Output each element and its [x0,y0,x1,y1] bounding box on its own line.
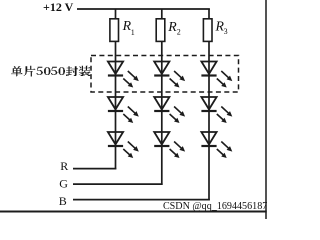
wire: column 3 vertical (B channel) [208,9,210,200]
wire: G output [73,183,163,185]
resistor R3 [203,19,212,42]
wire: R output [73,168,116,170]
label: 单片5050封装 (traced) [11,66,91,77]
wire: column 2 vertical (G channel) [161,9,163,185]
border bottom [0,211,267,213]
LED D4 [108,97,139,123]
resistor R1 [110,19,119,42]
svg-text:CSDN @qq_1694456187: CSDN @qq_1694456187 [163,201,267,212]
svg-text:1: 1 [131,28,135,37]
LED D3 [201,62,232,88]
LED D6 [201,97,232,123]
LED D2 [154,62,185,88]
svg-text:3: 3 [224,27,228,36]
wire: +12V top rail [77,8,210,10]
LED D8 [154,132,185,158]
svg-text:B: B [59,194,67,208]
border right [265,0,267,219]
LED D5 [154,97,185,123]
svg-text:2: 2 [177,28,181,37]
wire: column 1 vertical (R channel) [115,9,117,169]
LED D9 [201,132,232,158]
resistor R2 [156,19,165,42]
LED D7 [108,132,139,158]
svg-text:R: R [60,159,68,173]
svg-text:+12 V: +12 V [43,0,74,14]
dashed box: single 5050 package [91,56,239,93]
LED D1 [108,62,139,88]
svg-text:G: G [59,177,68,191]
wire: B output [73,199,210,201]
